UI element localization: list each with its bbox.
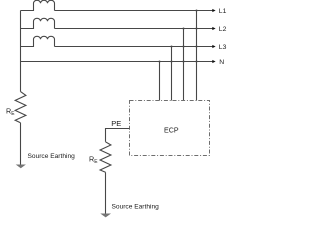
wire RE1 to earth [20,123,22,165]
junction L1 tap x L3 [195,45,197,47]
junction L3 tap x N [170,60,172,62]
earth arrow (left) [16,165,26,169]
neutral star-point bus wire [20,11,22,92]
junction L1 tap x N [195,60,197,62]
wire N line [21,61,213,63]
svg-text:Source Earthing: Source Earthing [28,153,76,160]
wire L3 line [55,46,213,48]
svg-text:RE: RE [89,154,98,165]
svg-text:L2: L2 [219,26,227,33]
junction L2 tap [182,27,184,29]
svg-text:RE: RE [6,106,15,117]
junction L2 tap x L3 [182,45,184,47]
svg-text:PE: PE [111,119,121,128]
wire L2 line [55,28,213,30]
arrowhead N [212,60,215,63]
arrowhead L2 [212,27,215,30]
wire L2 tap to ECP [183,29,185,101]
svg-text:L3: L3 [219,44,227,51]
transformer winding W1 (phase L1) [21,0,55,10]
wire L1 tap to ECP [196,11,198,101]
junction L3 tap [170,45,172,47]
junction L1 tap [195,9,197,11]
wire N tap to ECP [159,62,161,101]
transformer winding W2 (phase L2) [21,18,55,28]
resistor RE1 (source earthing resistance) [15,92,26,123]
junction L2 tap x N [182,60,184,62]
resistor RE2 (installation earthing resistance) [100,142,111,173]
earth arrow (right) [100,214,111,218]
svg-text:L1: L1 [219,8,227,15]
wire PE conductor [106,129,130,142]
junction N tap [158,60,160,62]
arrowhead L1 [212,9,215,12]
arrowhead L3 [212,45,215,48]
wire L1 line [55,10,213,12]
wire RE2 to earth [105,172,107,214]
transformer winding W3 (phase L3) [21,36,55,46]
ECP box (dash-dot) [130,101,210,156]
svg-text:Source Earthing: Source Earthing [112,203,160,210]
wire L3 tap to ECP [171,47,173,101]
junction L1 tap x L2 [195,27,197,29]
svg-text:ECP: ECP [164,126,179,134]
svg-text:N: N [219,59,224,66]
